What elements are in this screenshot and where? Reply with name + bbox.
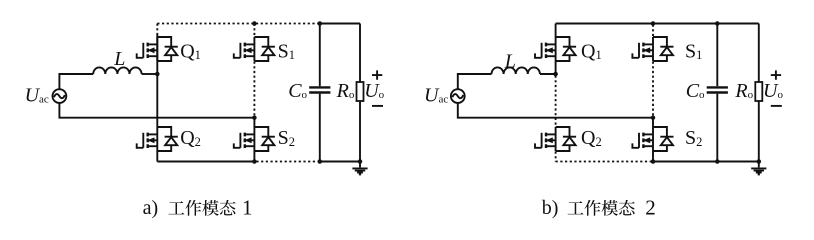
svg-text:Uo: Uo (763, 80, 783, 102)
transistor Q1 MOSFET body-diode loop and spine (556, 37, 570, 61)
svg-text:Ro: Ro (336, 80, 355, 102)
AC source circle (451, 89, 465, 103)
capacitor Co plates (309, 87, 330, 92)
caption char 态 (619, 200, 635, 215)
caption char 态 (220, 200, 236, 215)
wire: Q1 drain stub and Q1 source to junction (solid) (555, 24, 557, 75)
transistor Q2 source lead (546, 145, 556, 147)
wire: bottom rail Co to Ro leg (320, 161, 360, 163)
svg-text:Co: Co (686, 80, 705, 102)
wire: Co leg (319, 24, 321, 162)
wire: S midpoint to S2 and S2 to bottom rail (solid) (253, 118, 255, 162)
svg-text:L: L (504, 51, 516, 73)
node: top rail at S1 (252, 21, 257, 26)
AC source circle (53, 89, 67, 103)
transistor Q1 body arrow (148, 49, 158, 51)
transistor S2 body arrow (643, 139, 653, 141)
svg-text:Uac: Uac (25, 84, 49, 106)
svg-text:Ro: Ro (734, 80, 753, 102)
transistor S1 gate electrode and lead (638, 43, 640, 58)
transistor Q1 gate electrode and lead (142, 43, 144, 58)
wire: Q1 drain stub (dashed) (156, 24, 158, 35)
wire: S1 drain stub (dashed) (253, 24, 255, 37)
node: bottom rail at S2 (651, 159, 656, 164)
transistor Q1 gate electrode and lead (541, 43, 543, 58)
transistor S2 MOSFET body-diode loop and spine (254, 127, 268, 151)
wire: S midpoint to S2 and S2 to bottom rail (solid) (652, 118, 654, 162)
svg-text:a): a) (143, 197, 159, 219)
wire: source bottom lead and return wire to S-midpoint (59, 103, 254, 118)
transistor S1 body diode (660, 46, 673, 48)
caption char 作 (584, 200, 600, 216)
node: top rail at Co (318, 21, 323, 26)
transistor S1 body diode (262, 46, 275, 48)
transistor S1 gate electrode and lead (239, 43, 241, 58)
transistor Q2 channel bar (545, 133, 547, 148)
svg-text:Q2: Q2 (180, 127, 201, 149)
wire: bottom rail Q2 to S2 (dashed) (556, 161, 651, 163)
transistor S1 source lead (245, 55, 255, 57)
svg-text:S1: S1 (278, 41, 295, 63)
caption char 模 (202, 200, 219, 216)
transistor S2 drain lead (245, 133, 255, 135)
node: bottom rail at Co (715, 159, 720, 164)
svg-text:Uac: Uac (424, 84, 448, 106)
caption char 工 (168, 201, 184, 214)
caption char 作 (185, 200, 201, 216)
wire: source bottom lead and return wire to S-midpoint (458, 103, 653, 118)
transistor Q1 body arrow (546, 49, 556, 51)
node: S-leg midpoint (651, 115, 656, 120)
wire: bottom rail Q2 to S2 (solid) (157, 161, 254, 163)
transistor S1 body arrow (245, 49, 255, 51)
wire: bottom rail Co to Ro leg (717, 161, 759, 163)
wire: source top lead to inductor (59, 74, 93, 89)
inductor L (492, 67, 540, 74)
wire: Ro leg (359, 24, 361, 162)
transistor S2 body diode (660, 136, 673, 138)
transistor Q2 MOSFET body-diode loop and spine (556, 127, 570, 151)
wire: inductor to Q-leg junction (142, 73, 158, 75)
transistor Q1 source lead (546, 55, 556, 57)
svg-text:b): b) (542, 197, 559, 219)
transistor Q2 channel bar (146, 133, 148, 148)
wire: inductor to Q-leg junction (540, 73, 556, 75)
node: bottom rail at Co (318, 159, 323, 164)
transistor S1 drain lead (245, 43, 255, 45)
wire: Q leg solid from Q1 top through junction to Q2 (156, 34, 158, 127)
node: top rail at S1 (651, 21, 656, 26)
transistor S1 drain lead (643, 43, 653, 45)
wire: top rail (solid) (556, 23, 718, 25)
wire: Co leg (716, 24, 718, 162)
transistor S1 body arrow (643, 49, 653, 51)
label output minus (771, 105, 782, 107)
svg-text:2: 2 (645, 196, 656, 220)
node: bottom rail at ground (757, 159, 762, 164)
inductor L (93, 67, 141, 74)
wire: source top lead to inductor (458, 74, 492, 89)
transistor Q1 channel bar (545, 43, 547, 58)
transistor Q1 drain lead (546, 43, 556, 45)
transistor Q2 body arrow (148, 139, 158, 141)
transistor S2 gate electrode and lead (239, 133, 241, 148)
transistor Q1 body diode (563, 46, 576, 48)
transistor S2 channel bar (244, 133, 246, 148)
wire: Ro leg (758, 24, 760, 162)
AC source sine (54, 94, 65, 98)
ground symbol (359, 162, 361, 168)
transistor S2 source lead (245, 145, 255, 147)
ground symbol (758, 162, 760, 168)
svg-text:Q1: Q1 (180, 41, 201, 63)
transistor S1 MOSFET body-diode loop and spine (653, 37, 667, 61)
wire: Q2 source to bottom rail (156, 151, 158, 162)
node: Q-leg inductor junction (553, 72, 558, 77)
wire: top rail Co to Ro leg (717, 23, 759, 25)
resistor Ro box (755, 82, 762, 101)
svg-text:S2: S2 (685, 127, 702, 149)
transistor S2 body diode (262, 136, 275, 138)
node: bottom rail at ground (358, 159, 363, 164)
capacitor Co plates (707, 87, 728, 92)
svg-text:Q1: Q1 (581, 41, 602, 63)
resistor Ro box (357, 82, 364, 101)
transistor S2 body arrow (245, 139, 255, 141)
transistor S2 channel bar (642, 133, 644, 148)
transistor Q2 drain lead (546, 133, 556, 135)
svg-text:S1: S1 (685, 41, 702, 63)
label output minus (372, 105, 383, 107)
wire: S1 drain stub (dashed) (652, 25, 654, 37)
svg-text:1: 1 (242, 196, 253, 220)
transistor Q2 body arrow (546, 139, 556, 141)
transistor S2 MOSFET body-diode loop and spine (653, 127, 667, 151)
transistor S2 source lead (643, 145, 653, 147)
node: top rail at Co (715, 21, 720, 26)
svg-text:S2: S2 (278, 127, 295, 149)
transistor Q1 source lead (148, 55, 158, 57)
transistor S2 drain lead (643, 133, 653, 135)
svg-text:Co: Co (288, 80, 307, 102)
transistor S2 gate electrode and lead (638, 133, 640, 148)
transistor Q1 MOSFET body-diode loop and spine (157, 37, 171, 61)
transistor Q2 gate electrode and lead (541, 133, 543, 148)
transistor S1 source lead (643, 55, 653, 57)
caption char 模 (602, 200, 619, 216)
wire: bottom rail S2 to Co leg (solid) (653, 161, 717, 163)
transistor Q2 body diode (563, 136, 576, 138)
transistor Q2 MOSFET body-diode loop and spine (157, 127, 171, 151)
wire: top rail Co to Ro leg (320, 23, 360, 25)
node: bottom rail at S2 (252, 159, 257, 164)
transistor S1 MOSFET body-diode loop and spine (254, 37, 268, 61)
transistor Q1 channel bar (146, 43, 148, 58)
wire: Q leg junction to Q2 (dashed) (555, 76, 557, 127)
node: S-leg midpoint (252, 115, 257, 120)
svg-text:Uo: Uo (364, 80, 384, 102)
wire: bottom rail S2 to Co leg (dashed) (256, 161, 319, 163)
svg-text:L: L (113, 48, 125, 70)
wire: S1 source to S-midpoint (dashed) (253, 62, 255, 117)
AC source sine (452, 94, 463, 98)
wire: top rail (dashed) (157, 23, 319, 25)
transistor Q2 gate electrode and lead (142, 133, 144, 148)
transistor Q2 body diode (165, 136, 178, 138)
transistor Q1 drain lead (148, 43, 158, 45)
transistor Q1 body diode (165, 46, 178, 48)
transistor S1 channel bar (244, 43, 246, 58)
wire: S1 source to S-midpoint (dashed) (652, 62, 654, 117)
wire: Q2 source to bottom rail (dashed) (555, 152, 557, 162)
label output plus (771, 70, 781, 79)
transistor S1 channel bar (642, 43, 644, 58)
svg-text:Q2: Q2 (581, 127, 602, 149)
transistor Q2 drain lead (148, 133, 158, 135)
label output plus (372, 70, 382, 79)
node: Q-leg inductor junction (155, 72, 160, 77)
transistor Q2 source lead (148, 145, 158, 147)
caption char 工 (568, 201, 584, 214)
